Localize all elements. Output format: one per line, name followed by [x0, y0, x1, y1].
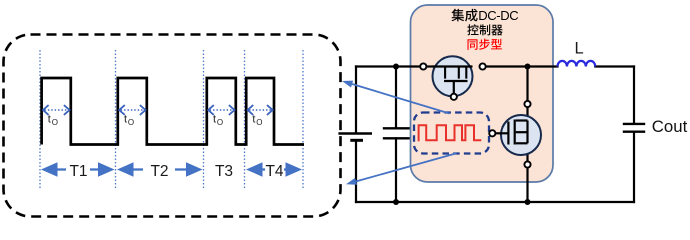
- svg-text:t: t: [213, 114, 216, 126]
- svg-text:T4: T4: [265, 163, 283, 180]
- svg-text:t: t: [124, 114, 127, 126]
- svg-text:T2: T2: [150, 163, 168, 180]
- svg-text:L: L: [575, 40, 584, 58]
- svg-text:Cout: Cout: [652, 117, 688, 136]
- svg-text:T3: T3: [215, 163, 233, 180]
- svg-text:O: O: [128, 118, 134, 127]
- svg-text:O: O: [256, 118, 262, 127]
- svg-text:t: t: [252, 114, 255, 126]
- svg-text:O: O: [217, 118, 223, 127]
- svg-text:O: O: [52, 118, 58, 127]
- svg-text:T1: T1: [69, 163, 87, 180]
- svg-text:DC-DC: DC-DC: [478, 8, 518, 23]
- svg-text:t: t: [48, 114, 51, 126]
